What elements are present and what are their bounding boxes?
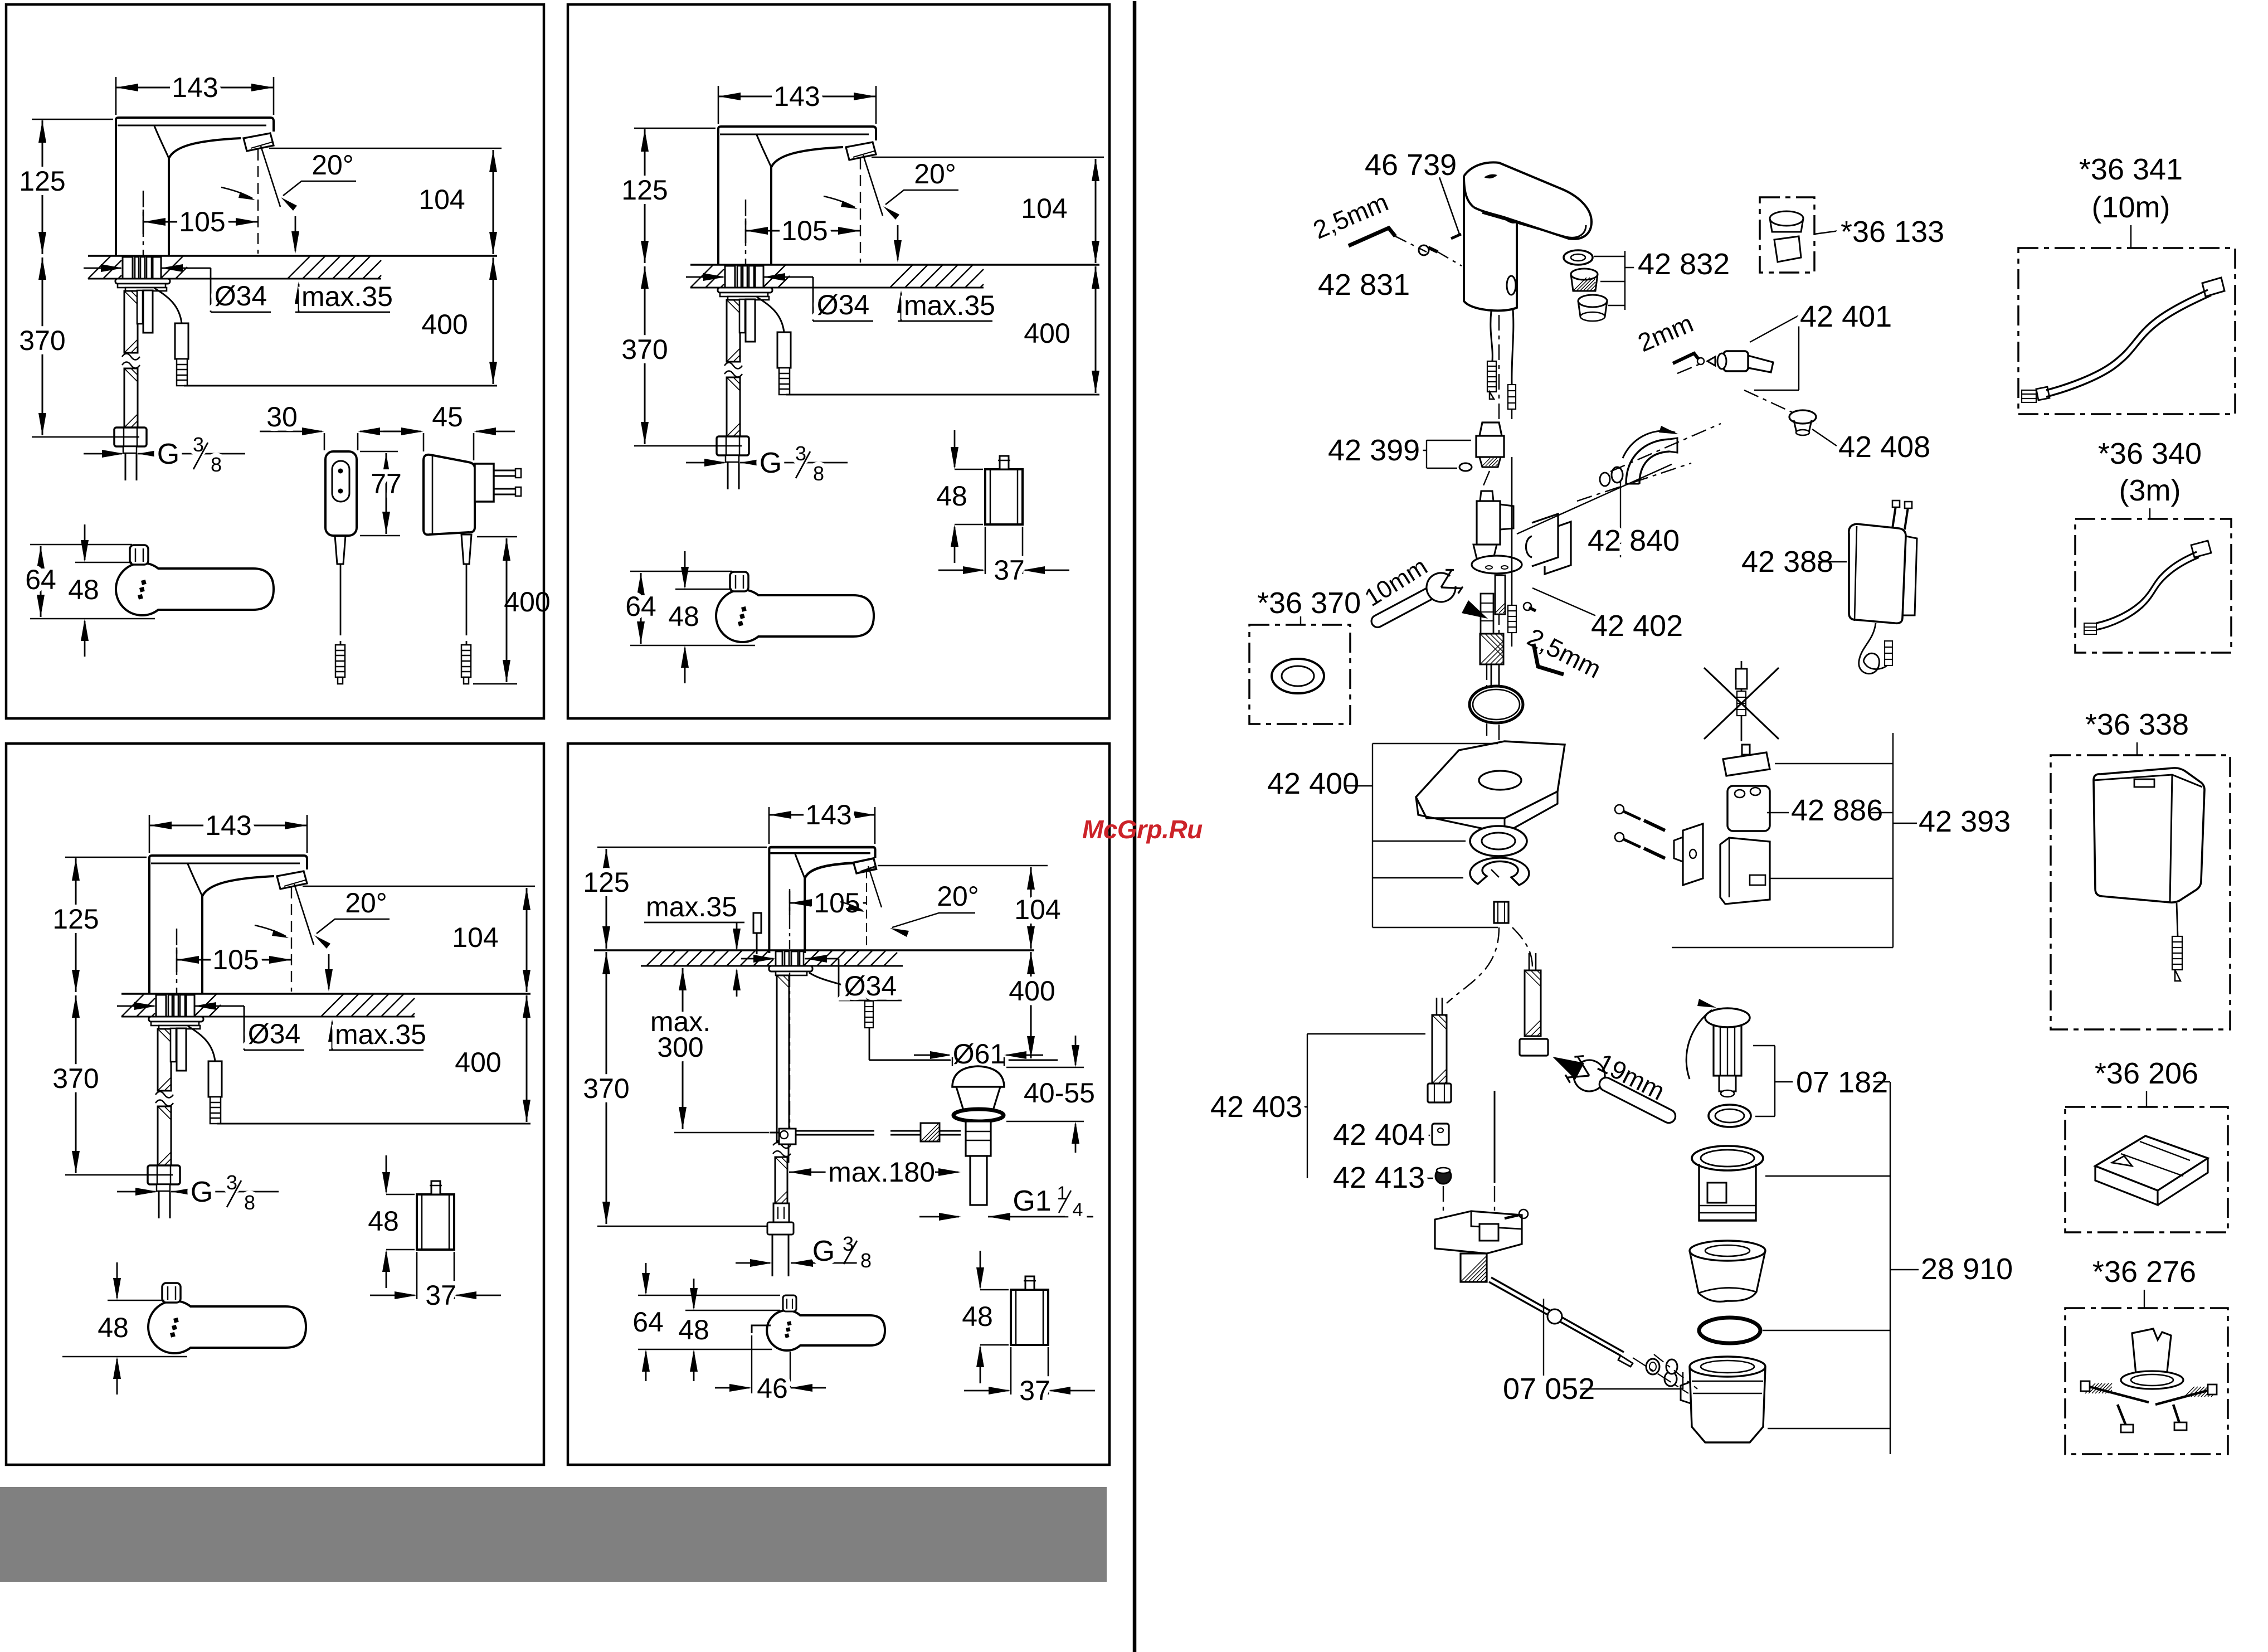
svg-text:8: 8 [244,1191,255,1214]
svg-text:Ø34: Ø34 [817,289,870,320]
supply hose right exploded [1525,970,1541,1036]
svg-text:20°: 20° [312,149,354,181]
arc arrow elbow [1623,431,1675,458]
mounting kit *36 276 [2132,1329,2171,1380]
box *36 341 [2018,248,2235,414]
spout nozzle (panel3) [277,871,307,889]
panel border top-left [6,4,544,718]
dim 143 (panel4) [768,807,770,844]
mounting deck (panel1) [88,255,497,257]
arc arrow plunger [1686,1010,1712,1079]
sensor cable exploded lower [1511,457,1513,605]
control handle (panel3) [148,1301,306,1353]
sensor cable block (panel3) [208,1061,222,1097]
washer under basin [1470,826,1527,856]
allen key 2mm [1673,353,1698,363]
svg-text:*36 276: *36 276 [2092,1255,2196,1289]
mounting deck (panel3) [121,993,531,995]
dim 104 (panel3) [303,886,535,887]
dim 125 (panel2) [634,128,716,129]
plug-in power supply front (panel1) [325,451,357,536]
svg-text:G: G [157,438,179,470]
mounting deck (panel2) [690,264,1099,266]
dim 105 (panel1) [143,210,144,234]
ring *36 370 [1272,659,1324,693]
rod small rings [1646,1359,1659,1374]
faucet centerline (panel3) [176,929,178,1050]
pin 46 739 [1451,234,1461,239]
mounting deck (panel4) [594,949,1034,951]
dim dia 34 (panel2) [686,276,723,278]
svg-text:370: 370 [583,1073,629,1104]
aerator washer 42832 [1564,250,1593,265]
hose 10m [2046,290,2208,390]
angle 20 deg (panel1) [257,149,259,254]
cable baseline 400 (panel4) [869,1060,1058,1061]
hose nut (panel3) [148,1165,180,1184]
ref arrow to deck (panel1) [295,216,296,251]
pull-rod knob (panel4) [753,913,761,933]
supply hose (panel1) [124,291,138,353]
svg-text:400: 400 [455,1047,501,1078]
battery cap [1723,752,1770,776]
wrench 19 arrow [1552,1057,1584,1080]
svg-text:28 910: 28 910 [1921,1252,2013,1286]
bracket 42 403 group [1307,1034,1308,1178]
svg-text:42 831: 42 831 [1318,268,1410,302]
dim 400 (panel1) [493,257,494,384]
sensor cable (panel4) [809,973,868,1001]
svg-text:42 402: 42 402 [1591,609,1683,643]
solenoid box (panel2) [985,469,1023,524]
bracket 42 832 [1594,256,1625,257]
pop-up linkage box [1435,1211,1522,1253]
svg-text:370: 370 [19,325,65,356]
label 42 408 leader [1812,429,1837,446]
dim 77 (panel1) [360,451,398,453]
svg-text:G: G [812,1235,835,1267]
faucet centerline (panel2) [745,200,747,321]
dashed curve to hoses [1447,927,1499,1003]
svg-text:8: 8 [211,453,222,476]
dim 143 (panel1) [115,77,117,115]
battery tray *36 206 [2095,1136,2208,1191]
svg-text:48: 48 [668,601,699,632]
svg-text:48: 48 [68,574,99,605]
battery bracket plate [1683,824,1703,885]
dim 125 (panel4) [597,847,767,848]
svg-text:42 408: 42 408 [1838,430,1930,464]
dim 370 (panel2) [634,445,742,447]
dim dia 34 (panel1) [84,268,121,269]
dim 104 (panel1) [269,148,502,149]
valve body assembly [1480,491,1493,501]
control handle (panel2) [716,590,874,642]
fixing shank (panel4) [776,951,782,966]
plunger assembly [1705,1008,1750,1027]
svg-text:46 739: 46 739 [1365,148,1457,182]
svg-text:42 393: 42 393 [1919,805,2011,838]
screw small lower [1529,608,1536,611]
supply hose (panel3) [158,1029,171,1091]
escutcheon (panel4) [769,966,812,971]
solenoid box (panel3) [417,1194,454,1250]
svg-text:104: 104 [418,184,465,215]
drain o-ring [1699,1318,1760,1343]
vertical divider [1133,1,1137,1652]
control handle (panel1) [116,563,274,615]
svg-text:3: 3 [843,1232,854,1255]
pop-up crossbar (panel4) [796,1130,874,1132]
svg-text:max.35: max.35 [904,290,995,321]
svg-text:max.35: max.35 [335,1019,426,1050]
dim 400 (panel4) [1030,952,1032,1058]
dim 143 (panel2) [718,86,719,124]
svg-text:*36 133: *36 133 [1841,215,1944,249]
sensor cable (panel1) [154,288,182,323]
box *36 338 [2051,755,2230,1029]
horseshoe washer [1470,858,1529,885]
sensor window oval [1507,276,1516,295]
control box cable [2177,903,2178,936]
svg-text:*36 206: *36 206 [2095,1057,2198,1090]
svg-text:143: 143 [172,72,218,103]
handle sensor dots (panel1) [138,580,147,600]
dashdot through lever [1677,362,1704,373]
dim 64 (panel4) [638,1295,780,1296]
panel border top-right [568,4,1109,718]
aerator insert 42832 [1571,269,1598,280]
dim 370 (panel4) [606,952,607,1224]
valve hose stub [1480,634,1503,664]
linkage long rod [1489,1282,1620,1355]
svg-text:64: 64 [625,591,656,622]
angle 20 deg (panel3) [291,887,292,992]
escutcheon (panel2) [718,288,772,293]
bracket 42 393 [1892,733,1894,948]
svg-text:105: 105 [814,887,860,919]
svg-text:42 840: 42 840 [1588,524,1680,557]
hose nut (panel2) [717,436,749,455]
battery 42 886 [1727,786,1770,831]
cartridge 42 399 [1479,422,1502,436]
dim 48 handle (panel3) [108,1300,164,1301]
handle stub (panel3) [162,1283,181,1303]
svg-text:48: 48 [936,480,967,512]
bracket 07 182 [1774,1046,1775,1116]
panel border bottom-right [568,744,1109,1465]
plug-in power supply side (panel1) [424,455,475,535]
svg-text:143: 143 [805,799,851,830]
svg-text:20°: 20° [914,158,956,190]
centerline main chain [1498,315,1500,419]
dim 105 (panel3) [176,948,178,972]
dim dia 34 (panel3) [117,1005,154,1007]
dim 104 (panel4) [878,865,1048,867]
box *36 133 [1760,197,1814,273]
pull rod thin [1494,1091,1496,1183]
svg-text:McGrp.Ru: McGrp.Ru [1082,815,1203,844]
adapter cable 42 388 [1859,623,1880,674]
svg-text:77: 77 [371,468,402,499]
svg-text:42 886: 42 886 [1791,794,1883,827]
dim 125 (panel1) [32,119,113,120]
lever 42 401 [1724,351,1748,371]
svg-text:42 400: 42 400 [1267,767,1359,800]
svg-text:143: 143 [773,81,820,112]
control box *36 338 [2094,768,2204,902]
power adapter 42 388 [1849,524,1906,623]
dashdot rod to linkage [1443,1186,1444,1215]
dim 400 cable (panel1) [477,536,517,538]
svg-text:300: 300 [657,1032,703,1063]
supply hose left exploded [1432,1015,1447,1083]
mounting nut [1494,902,1508,923]
sensor tube (panel3) [171,1028,176,1062]
faucet outline (panel3) [149,856,307,869]
dim 30 (panel1) [324,433,325,450]
dim 105 (panel4) [789,891,791,915]
power cable front (panel1) [340,564,342,635]
svg-text:400: 400 [421,309,468,340]
svg-text:4: 4 [1073,1199,1083,1221]
angle 20 deg (panel4) [866,869,867,951]
svg-text:370: 370 [621,334,668,365]
faucet cables exploded [1491,311,1492,361]
svg-text:105: 105 [179,206,225,237]
wrench arrow [1462,600,1488,619]
bracket 28 910 [1890,1082,1891,1454]
panel border bottom-left [6,744,544,1465]
dim 48 handle (panel4) [685,1310,780,1311]
battery holder [1720,838,1770,904]
dim 105 (panel2) [745,218,747,243]
cable baseline 400 (panel1) [184,385,497,387]
dim 125 (panel3) [65,857,147,858]
supply pipe (panel4) [772,1235,773,1276]
svg-text:125: 125 [19,166,65,197]
svg-text:143: 143 [205,810,251,841]
svg-text:105: 105 [781,215,828,246]
svg-text:42 401: 42 401 [1800,300,1892,333]
drain knurled knob (panel4) [921,1123,940,1141]
nut 42 413 [1435,1168,1451,1184]
svg-text:G: G [191,1176,213,1208]
sensor cable (panel3) [188,1026,215,1061]
sensor slot on spout [1484,174,1497,179]
o-ring 42 399 [1459,463,1472,471]
svg-text:370: 370 [52,1063,99,1094]
svg-text:46: 46 [757,1373,788,1404]
dim max35 (panel3) [329,1049,424,1051]
svg-text:Ø34: Ø34 [215,280,267,312]
handle sensor dots (panel4) [785,1321,792,1338]
bracket 42 401 [1750,315,1799,342]
supply hose (panel2) [727,300,740,362]
dim 37 box (panel3) [416,1252,418,1299]
svg-text:64: 64 [632,1306,664,1338]
handle sensor dots (panel3) [170,1318,179,1338]
dim 46 (panel4) [751,1335,752,1393]
hose nut (panel4) [767,1222,794,1235]
stopper 42 408 [1789,410,1816,424]
svg-text:42 832: 42 832 [1638,247,1730,281]
svg-text:37: 37 [1019,1375,1050,1406]
cable baseline 400 (panel2) [786,394,1099,396]
svg-text:104: 104 [1014,894,1060,925]
svg-text:125: 125 [583,867,629,898]
ref arrow to deck (panel3) [328,954,330,989]
dim max300 (panel4) [682,968,684,1129]
sensor cable block (panel2) [777,332,791,368]
hose nut (panel1) [114,427,147,446]
faucet outline (panel2) [718,127,876,140]
screw 42 831 [1419,245,1429,255]
crossed-out cable [1741,661,1743,741]
svg-text:400: 400 [504,586,550,618]
diagonal dashdot to elbow [1517,464,1672,534]
svg-text:40-55: 40-55 [1024,1077,1095,1109]
svg-text:(10m): (10m) [2091,191,2170,224]
svg-text:*36 370: *36 370 [1257,586,1361,620]
box *36 276 [2065,1308,2228,1454]
svg-text:105: 105 [212,944,259,975]
battery screws [1615,805,1624,814]
dim 64 (panel1) [30,544,132,546]
thread G3/8 (panel4) [736,1262,770,1264]
bracket 42 400 [1344,785,1373,786]
thread G1 1/4 (panel4) [919,1216,959,1218]
svg-text:*36 338: *36 338 [2085,708,2189,741]
svg-text:*36 341: *36 341 [2079,153,2183,186]
pop-up waste drain (panel4) [952,1066,1004,1087]
box *36 370 [1249,625,1350,724]
handle hook (panel4) [752,1325,771,1333]
elbow assembly [1626,439,1670,484]
faucet outline (panel4) [769,847,876,953]
faucet outline (panel1) [116,118,274,132]
svg-text:37: 37 [425,1280,456,1311]
hose 3m [2096,552,2197,623]
spout nozzle (panel2) [846,142,876,160]
svg-text:48: 48 [962,1301,993,1332]
dim 48 handle (panel1) [75,562,132,563]
supply pipe (panel2) [727,462,729,489]
svg-text:42 399: 42 399 [1328,434,1420,467]
pull rod (panel4) [789,973,790,1129]
dim 48 box (panel3) [386,1194,415,1196]
thread G3/8 (panel1) [84,453,122,455]
fixing shank (panel3) [156,995,166,1017]
sensor cable block (panel1) [175,323,188,359]
dim 64 (panel2) [630,571,732,572]
svg-text:G1: G1 [1013,1185,1051,1217]
svg-text:42 403: 42 403 [1210,1090,1302,1124]
dim 48 box (panel2) [955,469,983,470]
dim 400 (panel3) [526,995,528,1122]
bracket 42 399 [1403,450,1427,451]
exploded faucet body [1464,162,1592,239]
thread G3/8 (panel3) [117,1191,155,1193]
svg-text:48: 48 [368,1206,399,1237]
svg-text:64: 64 [25,564,56,595]
angle 20 deg (panel2) [860,158,861,263]
supply pipe (panel1) [125,453,126,480]
box *36 340 [2075,519,2231,653]
dim 37 box (panel2) [985,527,986,574]
svg-text:Ø34: Ø34 [248,1018,301,1049]
cable baseline 400 (panel3) [217,1123,531,1125]
svg-text:125: 125 [621,174,668,206]
handle stub (panel1) [130,545,148,565]
svg-text:37: 37 [994,555,1025,586]
clamp bracket 42 840 part [1532,514,1558,566]
dim 400 (panel2) [1095,266,1097,393]
handle sensor dots (panel2) [738,606,747,626]
o-ring large [1469,686,1523,723]
svg-text:8: 8 [860,1249,872,1272]
drain cone seal [1690,1241,1765,1261]
dim dia61 (panel4) [914,1055,950,1056]
svg-text:max.35: max.35 [646,891,737,922]
ref arrow to deck (panel2) [897,225,899,260]
svg-text:42 413: 42 413 [1333,1161,1425,1194]
wrench 10mm [1365,561,1472,636]
supply pipe (panel3) [158,1191,160,1218]
svg-text:8: 8 [813,462,824,485]
dim 104 (panel2) [872,157,1104,158]
svg-text:max.35: max.35 [301,281,393,312]
control handle (panel4) [767,1310,885,1350]
gray footer bar [0,1487,1107,1582]
dim dia34 (panel4) [741,958,773,960]
dim 40-55 (panel4) [1006,1067,1084,1068]
svg-text:G: G [760,447,782,479]
svg-text:104: 104 [452,922,498,953]
valve connector left [1481,594,1493,634]
spout nozzle (panel1) [244,133,274,151]
svg-text:max.180: max.180 [828,1157,935,1188]
sensor tube (panel1) [137,290,143,324]
power cable side (panel1) [461,535,471,564]
svg-text:(3m): (3m) [2119,474,2181,507]
svg-text:*36 340: *36 340 [2098,437,2202,470]
svg-text:30: 30 [266,401,298,433]
svg-text:104: 104 [1021,193,1067,224]
aerator housing 42832 [1578,295,1607,307]
svg-text:20°: 20° [937,881,979,912]
drain flange [1692,1146,1763,1170]
box *36 206 [2065,1107,2228,1232]
sensor cable (panel2) [757,297,784,332]
drain body [1690,1357,1765,1377]
dim 370 (panel1) [32,436,139,438]
svg-text:48: 48 [98,1312,129,1343]
solenoid box (panel4) [1011,1290,1048,1345]
escutcheon (panel3) [149,1017,203,1022]
svg-text:400: 400 [1024,318,1070,349]
dim 48 box (panel4) [980,1289,1009,1291]
adjuster 42 404 [1432,1124,1449,1145]
escutcheon (panel1) [115,279,170,284]
handle stub (panel2) [730,572,748,591]
dim 48 handle (panel2) [675,589,732,590]
dim 370 (panel3) [65,1174,173,1176]
threaded stud below valve [1495,575,1505,614]
svg-text:42 404: 42 404 [1333,1118,1425,1151]
svg-text:125: 125 [52,903,99,935]
dim 37 box (panel4) [1010,1347,1012,1395]
